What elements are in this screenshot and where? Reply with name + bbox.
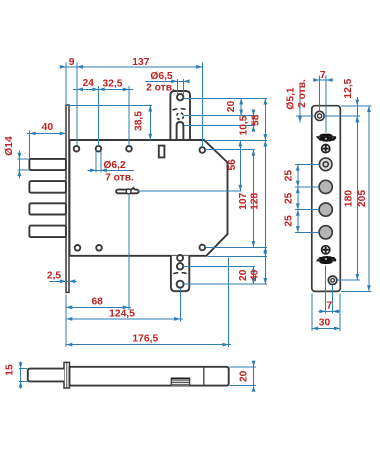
svg-text:24: 24 [82, 78, 94, 89]
phillips screw bottom [322, 246, 330, 254]
bottom view: cylinder block with ridges [171, 378, 189, 385]
svg-text:180: 180 [344, 190, 355, 207]
screw hole top right [200, 147, 206, 153]
dimension 205 [357, 106, 371, 292]
svg-text:30: 30 [319, 318, 331, 329]
bottom view: divider line [203, 367, 205, 386]
extension line hole A column [76, 63, 78, 147]
dimension 20 (bottom tab holes) [238, 266, 255, 284]
svg-text:40: 40 [250, 269, 261, 281]
extension tab hole3 to right [184, 283, 268, 285]
dimension D6,2 7 holes with leader [87, 151, 134, 184]
dimension 9 with line at top [60, 57, 203, 69]
faceplate bottom screw hole (countersunk, d5.1) [328, 276, 337, 285]
dimension 40 (bolt length) [27, 122, 66, 158]
lock body outline with chamfered right corners [70, 140, 228, 256]
svg-text:2 отв.: 2 отв. [146, 83, 175, 94]
svg-text:2,5: 2,5 [47, 270, 62, 281]
slot in top tab [177, 122, 184, 140]
keyhole slot (double-bit key profile) [116, 188, 138, 194]
extension faceplate centre column [325, 76, 327, 133]
screw hole row top: hole B [96, 146, 102, 152]
dimension 7 (faceplate bottom hole offset) [319, 301, 341, 314]
extension bolt hole3 left [295, 231, 319, 233]
dimension 2,5 (faceplate thickness) [47, 270, 77, 283]
dimension D14 (bolt diameter) [4, 136, 29, 179]
small rectangular slot in body [159, 146, 165, 158]
dimension 7 (faceplate top hole offset) [313, 70, 334, 82]
svg-text:56: 56 [227, 159, 238, 171]
svg-text:58: 58 [250, 114, 261, 126]
screw hole bottom row: hole B [96, 245, 102, 251]
screw hole row top: hole A [74, 146, 80, 152]
extension screw centre column down [325, 266, 327, 314]
bolt 4 (bottom) [29, 226, 66, 238]
svg-text:Ø6,5: Ø6,5 [150, 71, 173, 82]
svg-text:2 отв.: 2 отв. [297, 79, 308, 108]
dimension 176,5 [66, 334, 231, 347]
dimension 15 (bottom view bolt) [5, 362, 27, 389]
svg-text:124,5: 124,5 [109, 308, 135, 319]
extension faceplate bottom right corner down [339, 294, 341, 332]
extension body top edge to right [205, 139, 268, 141]
extension line below faceplate [65, 295, 67, 347]
bolt hole 2 (gray) [319, 203, 332, 216]
extension from body right edge down [228, 258, 230, 348]
hidden dashed line across bottom tab [173, 273, 187, 274]
top mounting tab of lock body [170, 91, 190, 140]
extension top hole column [319, 76, 321, 112]
bolt hole 3 (gray) [319, 226, 332, 239]
dimension 20 (tab hole to hidden hole) [226, 98, 243, 115]
retracted bolt ring hole [319, 158, 332, 171]
svg-text:12,5: 12,5 [343, 78, 354, 98]
extension line top-right hole column [201, 63, 203, 148]
svg-text:20: 20 [226, 101, 237, 113]
svg-text:176,5: 176,5 [132, 334, 158, 345]
screw hole bottom row: hole A [75, 245, 81, 251]
faceplate strip (front view, 2.5 thick) [66, 105, 69, 292]
extension bottom right hole to right [206, 246, 268, 248]
svg-text:205: 205 [357, 190, 368, 207]
svg-text:9: 9 [69, 57, 75, 68]
hole in top tab [177, 94, 183, 100]
extension slot top to right [184, 124, 255, 126]
screw hole bottom right [200, 245, 206, 251]
extension bottom hole right [337, 279, 360, 281]
svg-text:38,5: 38,5 [134, 111, 145, 131]
hidden dashed hole in top tab [177, 113, 184, 120]
extension faceplate bottom left corner down [311, 294, 313, 332]
bolt 1 (top) [29, 159, 66, 170]
dimension D6,5 2 holes with leader [146, 71, 190, 95]
svg-text:20: 20 [238, 269, 249, 281]
extension bottom hole column down [332, 285, 334, 314]
extension from top tab hole to right [184, 97, 267, 99]
extension bolt hole1 left [295, 186, 319, 188]
dimension 68 [66, 297, 131, 310]
faceplate top screw hole (countersunk, d5.1) [315, 111, 324, 120]
svg-text:68: 68 [91, 297, 103, 308]
dimension 137 label [132, 57, 149, 68]
svg-text:40: 40 [42, 122, 54, 133]
svg-text:10,5: 10,5 [239, 115, 250, 135]
svg-text:7: 7 [327, 301, 333, 312]
label D5,1 2 holes with leader arrow [285, 79, 315, 123]
extension line from faceplate left [65, 63, 67, 106]
bolt hole 1 (gray) [319, 180, 332, 193]
svg-text:Ø14: Ø14 [4, 136, 15, 156]
bottom view: faceplate cross-section [64, 362, 70, 388]
svg-text:137: 137 [132, 57, 149, 68]
hidden dashed line across top tab [173, 109, 188, 110]
bottom tab of lock body [171, 256, 189, 291]
extension line hole C / keyhole column (long) [128, 86, 130, 310]
hole 2 bottom tab [177, 263, 183, 269]
dimension 25 stack [283, 164, 299, 232]
phillips screw top [322, 145, 330, 153]
dimension 20 (bottom view bar height) [230, 361, 257, 392]
dimension 24 and 32,5 line [73, 78, 133, 91]
svg-text:7: 7 [320, 70, 326, 81]
extension ring hole left [295, 163, 319, 165]
dimension 180 [344, 116, 360, 280]
dimension 12,5 [343, 78, 359, 122]
svg-text:Ø5,1: Ø5,1 [285, 87, 296, 110]
brand emblem bottom (black logo, mirrored) [316, 256, 336, 264]
extension top hole right [324, 115, 360, 117]
dimension 30 (faceplate width) [312, 318, 340, 331]
svg-text:20: 20 [239, 370, 250, 382]
dimension 56 (body top to keyhole axis) [227, 140, 242, 191]
extension bolt hole2 left [295, 209, 319, 211]
extension hidden hole to right [184, 115, 255, 117]
keyhole centre extension line [139, 190, 242, 192]
extension from bottom tab hole [179, 288, 181, 321]
hole 3 bottom tab [177, 281, 184, 288]
extension tab hole2 to right [183, 265, 255, 267]
extension faceplate top edge right [341, 105, 372, 107]
svg-text:128: 128 [250, 192, 261, 209]
dimension 107 [238, 150, 255, 248]
svg-text:107: 107 [238, 192, 249, 209]
dimension 58 [250, 98, 267, 140]
bolt 3 [29, 203, 66, 214]
extension line hole B column [98, 86, 100, 146]
svg-text:25: 25 [283, 192, 294, 204]
dimension 128 [250, 140, 268, 256]
svg-text:25: 25 [283, 170, 294, 182]
svg-text:7 отв.: 7 отв. [105, 173, 134, 184]
svg-text:25: 25 [283, 215, 294, 227]
brand emblem top (black logo) [316, 134, 336, 142]
dimension 40 (hole to tab hole3) [250, 247, 268, 284]
svg-text:15: 15 [5, 364, 16, 376]
extension body bottom edge to right [208, 255, 268, 257]
bottom view: protruding bolt [28, 369, 64, 382]
svg-text:Ø6,2: Ø6,2 [103, 160, 126, 171]
extension top right hole to right [205, 149, 255, 151]
screw hole row top: hole C [126, 146, 132, 152]
extension faceplate bottom edge right [341, 290, 372, 292]
bottom view: lock body bar [70, 367, 229, 386]
hole 1 bottom tab (at body edge) [177, 255, 183, 261]
dimension 38,5 vertical [67, 105, 153, 140]
faceplate (edge view, right side) [312, 106, 341, 292]
svg-text:32,5: 32,5 [102, 78, 122, 89]
dimension 124,5 [66, 308, 183, 320]
bolt 2 [29, 181, 66, 193]
dimension 10,5 [239, 110, 256, 136]
